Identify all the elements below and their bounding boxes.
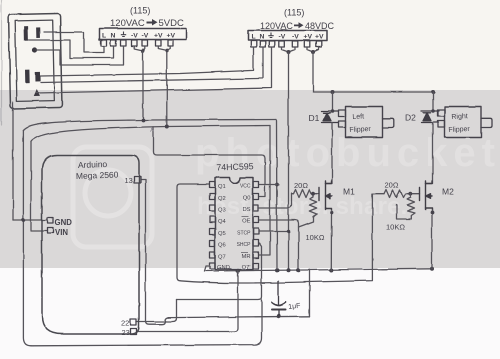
wire: 74HC595 GND pin drop (204, 266, 210, 271)
power supply PS2 block (120VAC to 48VDC) (248, 31, 327, 41)
svg-text:GND: GND (217, 265, 230, 271)
junction GND stub (22, 218, 26, 222)
U1 left pins (210, 182, 216, 270)
U1 right pin names (237, 184, 252, 272)
svg-text:22: 22 (121, 319, 129, 328)
junction ground rail / M2 source (430, 267, 434, 271)
svg-text:L: L (252, 34, 256, 41)
svg-text:Q5: Q5 (218, 231, 226, 237)
svg-text:Flipper: Flipper (349, 126, 371, 134)
Arduino pin 22 (131, 319, 137, 325)
transistor M1 MOSFET (320, 181, 332, 213)
svg-text:(115): (115) (284, 8, 304, 18)
left flipper tab (383, 118, 394, 127)
junction M2 source (430, 211, 434, 215)
wall outlet J1 (9, 13, 62, 108)
wire: PS1 -V pair join (134, 46, 145, 51)
wire: outlet to PS2 L (41, 47, 254, 76)
wire: PS2 +V pair join (307, 47, 319, 52)
wire: right flipper return to M2 drain (426, 123, 433, 184)
svg-text:20Ω: 20Ω (385, 181, 399, 190)
U1 right pins (253, 182, 259, 270)
wire: M2 source to ground rail (431, 210, 433, 269)
wire: PS2 -V pair join (282, 47, 296, 52)
svg-text:L: L (102, 33, 106, 40)
wire: +48V drop to left flipper (332, 92, 334, 111)
svg-text:Q0: Q0 (243, 196, 251, 202)
right flipper pin B (438, 121, 445, 128)
junction PS2 -V (287, 50, 291, 54)
wire: DS pin to M1 gate resistor (260, 194, 294, 208)
svg-text:+V: +V (304, 34, 313, 41)
svg-text:48VDC: 48VDC (305, 21, 335, 31)
junction GND rail / PS1 0V (141, 118, 145, 122)
wire: VIN vertical (31, 142, 48, 231)
ground bus rail (sloped, left loop) (23, 120, 276, 131)
svg-text:-V: -V (131, 33, 138, 40)
svg-text:+V: +V (315, 34, 324, 41)
junction M1 source (330, 211, 334, 215)
svg-text:+V: +V (167, 33, 176, 40)
svg-text:Q4: Q4 (218, 219, 227, 225)
wire: outlet to PS2 N (41, 47, 263, 83)
junction ground rail / M1 source (329, 268, 333, 272)
svg-text:VIN: VIN (55, 228, 68, 237)
junction M2 gate node (409, 192, 413, 196)
right flipper pin A (438, 110, 445, 117)
svg-text:Mega 2560: Mega 2560 (76, 170, 119, 181)
junction ground rail c (287, 268, 291, 272)
junction ground rail d (297, 268, 301, 272)
resistor R1 20 ohm (M1 gate) (294, 190, 320, 198)
junction capacitor bottom (276, 314, 280, 318)
svg-text:Left: Left (352, 113, 364, 121)
junction +48V at left flipper (331, 90, 335, 94)
svg-text:D1: D1 (309, 113, 320, 123)
svg-text:Arduino: Arduino (78, 159, 108, 170)
svg-text:SHCP: SHCP (237, 242, 252, 248)
svg-text:N: N (260, 34, 265, 41)
left flipper pin A (339, 110, 346, 117)
junction PS1 -V (141, 49, 145, 53)
svg-text:10KΩ: 10KΩ (386, 223, 405, 232)
wire: ground rail drop to cap link (309, 270, 311, 317)
svg-text:VCC: VCC (240, 184, 251, 190)
diode D2 (422, 111, 439, 123)
svg-text:23: 23 (122, 328, 130, 337)
PS2 terminal labels (252, 34, 324, 41)
wire: left flipper return to M1 drain (326, 123, 333, 184)
svg-text:Q3: Q3 (218, 208, 226, 214)
wire: Arduino pin23 run (137, 331, 235, 333)
left flipper pin B (339, 121, 346, 128)
Arduino Mega 2560 board outline (42, 156, 139, 335)
wire: bottom loop to MOSFET source rail (31, 300, 262, 346)
wire: +48V drop to right flipper (432, 92, 434, 111)
svg-text:GND: GND (55, 218, 73, 227)
svg-text:N: N (111, 33, 116, 40)
wire: Arduino pin13 stub (141, 180, 169, 325)
wire: +5V rail corner down to MR pin (260, 126, 271, 256)
svg-text:Flipper: Flipper (448, 126, 470, 134)
junction VCC pin tie (275, 183, 279, 187)
Arduino pin 23 (131, 329, 137, 335)
wire: PS2 0V drop to ground rail (288, 52, 290, 270)
svg-text:74HC595: 74HC595 (216, 161, 254, 172)
junction D1 top (331, 109, 335, 113)
wire: GND stub to Arduino GND pin (13, 219, 48, 221)
svg-text:M2: M2 (442, 187, 454, 197)
junction ground rail b (275, 268, 279, 272)
wire: left GND vertical (23, 131, 31, 346)
junction STCP tie (287, 230, 291, 234)
wire: Arduino pin22 run (137, 300, 177, 322)
svg-text:STCP: STCP (237, 231, 251, 237)
Arduino pin 13 (134, 177, 141, 184)
svg-text:-V: -V (279, 34, 286, 41)
wire: pin13 run to SHCP pin (177, 244, 262, 300)
wire: OE pin to pulldown vertical (260, 220, 299, 270)
svg-text:D2: D2 (405, 113, 416, 123)
wire: lower link run with hooks (169, 316, 310, 317)
svg-text:host. store. share.: host. store. share. (197, 193, 408, 220)
capacitor C1 1uF (272, 281, 286, 316)
svg-text:120VAC: 120VAC (260, 21, 293, 31)
wire: M2 gate run (181, 194, 385, 283)
wire: outlet ground down left edge (12, 102, 14, 220)
svg-text:Q2: Q2 (218, 196, 226, 202)
power supply PS1 block (120VAC to 5VDC) (100, 29, 187, 40)
resistor R4 10k ohm (M2 pulldown) (397, 194, 415, 219)
Arduino VIN pin (48, 228, 54, 234)
svg-text:DS: DS (242, 207, 250, 213)
svg-text:MR: MR (241, 254, 250, 260)
svg-text:5VDC: 5VDC (159, 18, 184, 29)
svg-text:M1: M1 (343, 187, 355, 197)
+5V rail (sloped) (31, 126, 270, 142)
junction +48V at right flipper (431, 90, 435, 94)
wire: PS1 0V drop (142, 51, 144, 121)
svg-text:Q7: Q7 (218, 255, 226, 261)
wire: outlet neutral to PS1 N (29, 40, 114, 58)
wire: shift register top wire to Q0 pin (154, 127, 266, 197)
right flipper coil connector (445, 107, 482, 138)
svg-text:-V: -V (142, 33, 149, 40)
resistor R2 10k ohm (M1 pulldown) (299, 194, 318, 227)
svg-text:OE: OE (242, 219, 251, 225)
PS1 terminal labels (102, 33, 175, 40)
diode D1 (322, 111, 339, 123)
junction D2 top (431, 109, 435, 113)
junction ground rail a (236, 269, 240, 273)
wire: outlet ground to PS2 ground (36, 47, 272, 93)
svg-text:(115): (115) (130, 6, 150, 16)
junction PS2 +V (311, 50, 315, 54)
svg-text:Q6: Q6 (218, 243, 226, 249)
wire: outlet hot to PS1 L (44, 32, 104, 53)
PS2 terminal tabs (251, 41, 321, 47)
shift register U1 74HC595 body (215, 178, 253, 270)
wire: M1 source to ground rail (330, 210, 332, 270)
svg-text:Right: Right (451, 113, 468, 121)
wire: PS1 +V pair join (158, 46, 170, 51)
svg-text:-V: -V (292, 34, 299, 41)
Arduino GND pin (48, 218, 54, 224)
svg-text:10KΩ: 10KΩ (306, 233, 325, 242)
resistor R3 20 ohm (M2 gate) (384, 190, 420, 198)
svg-text:Q7': Q7' (242, 265, 251, 271)
wire: PS1 +5V drop (166, 51, 168, 127)
ground rail bottom (204, 269, 432, 271)
PS1 terminal tabs (101, 40, 173, 46)
svg-text:120VAC: 120VAC (110, 18, 145, 29)
svg-text:Q1: Q1 (218, 184, 226, 190)
U1 left pin names (217, 184, 230, 271)
transistor M2 MOSFET (420, 181, 433, 213)
svg-text:13: 13 (125, 176, 133, 185)
right flipper tab (481, 118, 492, 127)
left flipper coil connector (346, 107, 383, 138)
wire: GND rail corner down to VCC junction and ground rail (276, 120, 279, 271)
wire: VCC pin stub (260, 184, 278, 186)
svg-text:+V: +V (154, 33, 163, 40)
junction PS1 +V (165, 49, 169, 53)
wire: STCP pin stub to 0V drop (260, 231, 289, 233)
wire: pin23 riser to ground rail (235, 271, 239, 332)
wire: +48V feed down then right (313, 52, 433, 92)
svg-text:1μF: 1μF (288, 303, 301, 311)
wire: outlet ground to PS1 ground (36, 46, 124, 65)
junction M1 gate node (312, 192, 316, 196)
svg-text:20Ω: 20Ω (294, 181, 308, 190)
junction +5V rail / PS1 +V (165, 125, 169, 129)
wire: Q1 pin feed for M2 gate (177, 184, 210, 281)
